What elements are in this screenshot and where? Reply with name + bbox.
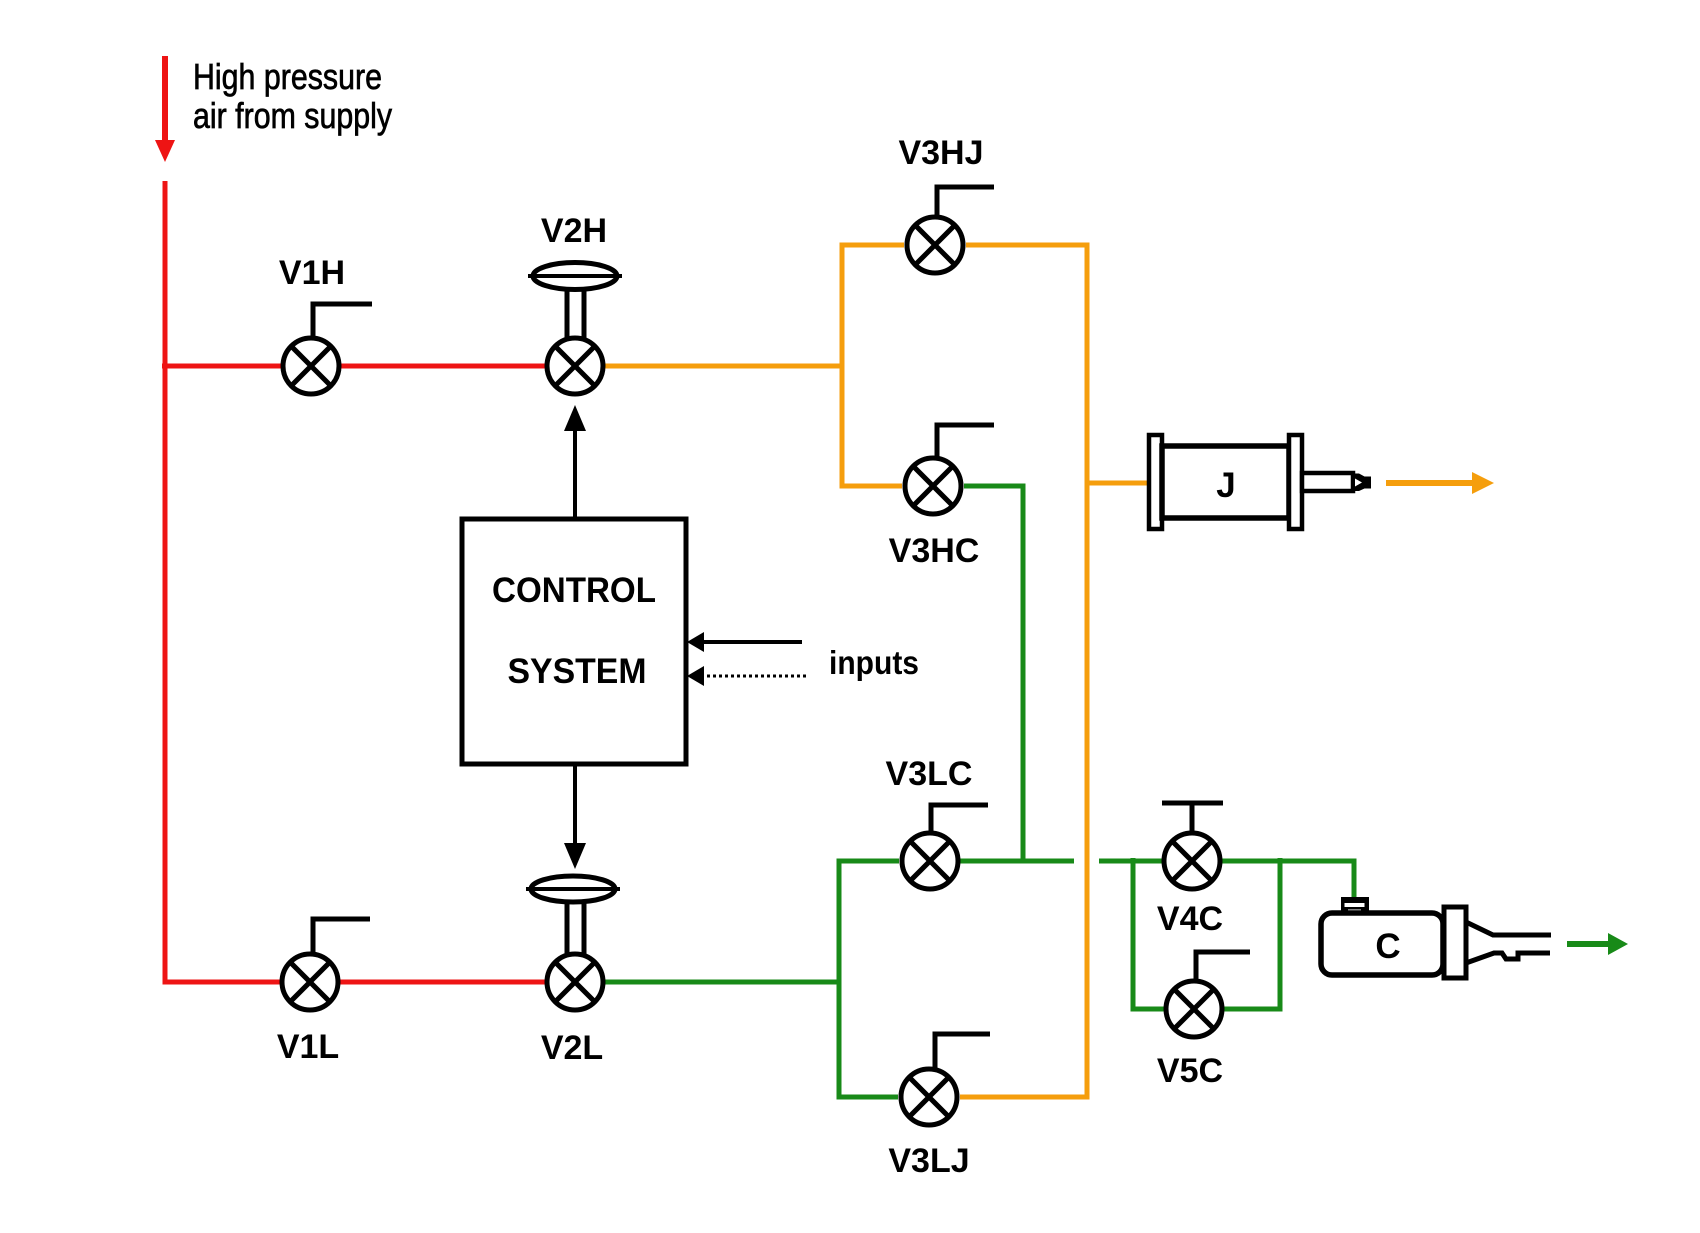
- control arrow to V2H: [564, 405, 586, 519]
- valve V5C: [1166, 981, 1222, 1037]
- device J body: [1162, 446, 1289, 518]
- label: High pressure air from supply: [193, 56, 392, 136]
- svg-text:V3HJ: V3HJ: [898, 134, 983, 172]
- wire: red V1H to V2H: [341, 364, 545, 369]
- svg-text:V3LJ: V3LJ: [888, 1142, 969, 1180]
- input arrow solid: [687, 632, 802, 652]
- svg-text:V3LC: V3LC: [886, 755, 973, 793]
- handle of V5C: [1196, 952, 1250, 982]
- handle of V1H: [313, 304, 372, 338]
- valve V1L: [282, 954, 338, 1010]
- svg-text:V1H: V1H: [279, 254, 345, 292]
- actuator of V2L: [526, 876, 620, 955]
- T-handle of V4C: [1162, 803, 1223, 834]
- arrow: orange J output flow: [1386, 472, 1494, 494]
- wire: orange V3HJ output, right vertical bus down to V3LJ: [960, 245, 1087, 1097]
- wire: red top branch from vertical to V1H: [162, 364, 281, 369]
- wire: green V3HC output down to low line: [964, 486, 1023, 861]
- device C right flange: [1444, 907, 1466, 978]
- device C filler cap: [1341, 897, 1369, 913]
- device C nozzle bottom line with notch: [1466, 953, 1550, 963]
- wire: green V4C output to tank C: [1222, 861, 1354, 899]
- wire: green after crossing to V4C: [1099, 859, 1162, 864]
- valve V3LJ: [901, 1069, 957, 1125]
- valve V2L (control valve): [547, 954, 603, 1010]
- wire: green V2L output to split: [605, 980, 841, 985]
- supply arrow (high pressure air inlet): [155, 56, 175, 162]
- valve V3LC: [902, 833, 958, 889]
- valve V4C: [1164, 833, 1220, 889]
- handle of V3HC: [937, 425, 994, 459]
- device C nozzle top line: [1466, 922, 1551, 935]
- device J nozzle tube: [1302, 473, 1353, 491]
- svg-text:V5C: V5C: [1157, 1052, 1223, 1090]
- svg-text:High pressure: High pressure: [193, 56, 382, 97]
- wire: green V5C output up to main line: [1224, 858, 1280, 1009]
- device C tank body: [1321, 913, 1443, 975]
- svg-text:J: J: [1216, 466, 1235, 505]
- svg-text:V3HC: V3HC: [889, 532, 980, 570]
- valve V1H: [283, 338, 339, 394]
- control system box: [462, 519, 686, 764]
- svg-text:CONTROL: CONTROL: [492, 571, 656, 610]
- handle of V3HJ: [937, 187, 994, 218]
- valve V3HJ: [907, 217, 963, 273]
- handle of V3LC: [931, 805, 988, 834]
- actuator of V2H: [528, 263, 622, 340]
- valve V2H (control valve): [547, 338, 603, 394]
- handle of V3LJ: [935, 1034, 990, 1070]
- wire: green V5C branch down-left: [1133, 858, 1164, 1009]
- wire: orange left split vertical (to V3HJ and V3HC): [842, 245, 904, 486]
- handle of V1L: [313, 919, 370, 954]
- svg-text:C: C: [1375, 927, 1400, 966]
- svg-text:V2L: V2L: [541, 1029, 603, 1067]
- svg-text:V4C: V4C: [1157, 900, 1223, 938]
- svg-text:V2H: V2H: [541, 212, 607, 250]
- svg-text:inputs: inputs: [829, 644, 919, 681]
- arrow: green C output flow: [1567, 933, 1628, 955]
- wire: green V3LC output to crossing: [960, 859, 1074, 864]
- control arrow to V2L: [564, 764, 586, 869]
- svg-text:V1L: V1L: [277, 1028, 339, 1066]
- valve V3HC: [905, 458, 961, 514]
- svg-text:air from supply: air from supply: [193, 95, 392, 136]
- device J left flange: [1149, 435, 1162, 529]
- wire: orange branch into jet pipe J: [1087, 481, 1150, 486]
- wire: red V1L to V2L: [340, 980, 545, 985]
- device J nozzle tip: [1353, 474, 1371, 492]
- svg-text:SYSTEM: SYSTEM: [508, 652, 647, 691]
- input arrow dotted: [687, 666, 806, 686]
- wire: red main supply vertical + bottom corner: [165, 181, 280, 982]
- wire: green left split vertical (to V3LC and V3LJ): [839, 861, 899, 1097]
- wire: orange V2H output to split: [605, 364, 844, 369]
- device J right flange: [1289, 435, 1302, 529]
